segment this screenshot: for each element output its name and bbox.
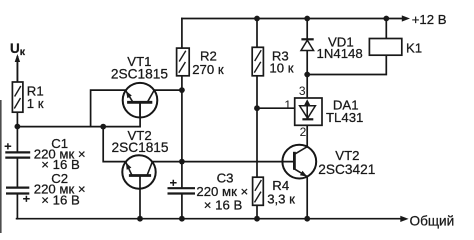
svg-text:2SC1815: 2SC1815	[111, 140, 168, 155]
svg-text:× 16 В: × 16 В	[204, 197, 243, 212]
svg-text:VT2: VT2	[335, 148, 359, 163]
svg-text:TL431: TL431	[326, 110, 363, 125]
svg-text:+12 В: +12 В	[412, 12, 447, 27]
svg-text:10 к: 10 к	[269, 61, 293, 76]
svg-text:Общий: Общий	[410, 214, 455, 229]
svg-text:1N4148: 1N4148	[317, 46, 363, 61]
svg-text:2: 2	[300, 125, 307, 139]
svg-text:3,3 к: 3,3 к	[267, 191, 295, 206]
svg-text:270 к: 270 к	[192, 62, 224, 77]
svg-text:2SC1815: 2SC1815	[111, 67, 168, 82]
svg-text:3: 3	[299, 84, 306, 98]
svg-text:× 16 В: × 16 В	[41, 192, 80, 207]
svg-text:× 16 В: × 16 В	[41, 157, 80, 172]
svg-text:2SC3421: 2SC3421	[318, 162, 375, 177]
svg-text:1: 1	[284, 98, 291, 112]
svg-text:1 к: 1 к	[27, 96, 44, 111]
svg-text:K1: K1	[406, 41, 422, 56]
